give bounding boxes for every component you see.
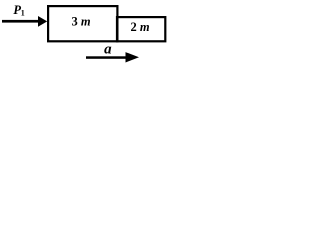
svg-text:a: a — [104, 42, 112, 58]
svg-text:2 m: 2 m — [131, 20, 150, 34]
svg-text:3 m: 3 m — [72, 14, 91, 28]
svg-text:1: 1 — [21, 9, 25, 18]
